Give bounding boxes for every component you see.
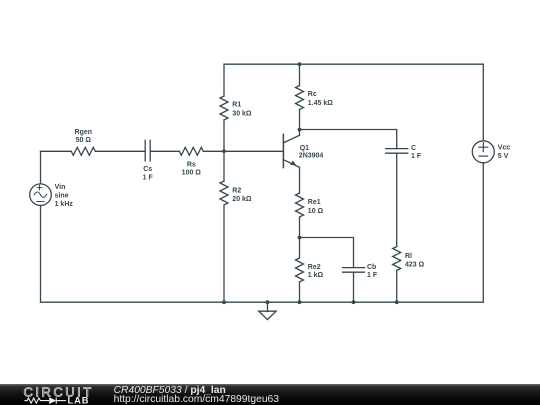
wire node B to R2 <box>223 151 225 181</box>
svg-text:Rs: Rs <box>187 161 196 168</box>
resistor R2 <box>220 181 252 205</box>
svg-text:50 Ω: 50 Ω <box>76 137 92 144</box>
svg-text:1 kΩ: 1 kΩ <box>308 272 324 279</box>
svg-text:Vcc: Vcc <box>498 145 511 152</box>
svg-text:5 V: 5 V <box>498 153 509 160</box>
wire Vcc bottom <box>482 163 484 302</box>
capacitor C <box>386 145 422 160</box>
wire collector to C <box>300 130 397 149</box>
svg-text:30 kΩ: 30 kΩ <box>232 110 252 117</box>
resistor Rc <box>296 86 334 110</box>
wire Re2 to bottom rail <box>299 282 301 302</box>
node top rail / Rc junction <box>298 62 302 66</box>
wire Rc to collector <box>299 110 301 136</box>
transistor Q1 <box>283 134 323 167</box>
svg-text:R2: R2 <box>232 187 241 194</box>
resistor Re1 <box>296 193 324 217</box>
wire Rs to node B <box>203 150 224 152</box>
capacitor Cs <box>143 140 154 181</box>
node bottom rail Cb <box>352 300 356 304</box>
wire Rgen to Cs <box>95 150 145 152</box>
node bottom rail ground <box>266 300 270 304</box>
svg-text:Cb: Cb <box>367 264 376 271</box>
svg-text:1 F: 1 F <box>367 272 378 279</box>
svg-text:1 kHz: 1 kHz <box>55 201 74 208</box>
svg-text:Re1: Re1 <box>308 199 321 206</box>
svg-text:20 kΩ: 20 kΩ <box>232 196 252 203</box>
svg-text:1 F: 1 F <box>411 153 422 160</box>
node bottom rail Rl <box>395 300 399 304</box>
ground <box>259 302 276 319</box>
wire emitter to Re1 <box>299 167 301 193</box>
footer bar <box>0 384 540 405</box>
svg-text:C: C <box>411 145 416 152</box>
footer text <box>114 385 280 405</box>
svg-text:Rl: Rl <box>405 253 412 260</box>
svg-text:Rgen: Rgen <box>75 129 93 136</box>
resistor Re2 <box>296 258 324 282</box>
node B base junction <box>222 149 226 153</box>
wire Vcc top <box>482 64 484 141</box>
CircuitLab logo <box>24 385 94 405</box>
node bottom rail R2 <box>222 300 226 304</box>
wire Rl to bottom rail <box>396 271 398 303</box>
wire top rail to Rc <box>299 64 301 85</box>
wire node B to base <box>224 150 283 152</box>
capacitor Cb <box>343 264 378 279</box>
wire node E to Cb <box>300 238 354 268</box>
svg-text:Q1: Q1 <box>300 145 309 152</box>
svg-text:1 F: 1 F <box>143 174 154 181</box>
resistor Rs <box>179 147 203 176</box>
resistor Rgen <box>71 129 95 156</box>
wire C to Rl <box>396 153 398 246</box>
wire bottom rail <box>41 301 484 303</box>
svg-text:Cs: Cs <box>143 166 152 173</box>
svg-text:Vin: Vin <box>55 184 66 191</box>
resistor Rl <box>393 247 425 271</box>
svg-text:1.45 kΩ: 1.45 kΩ <box>308 100 333 107</box>
wire top rail <box>224 63 483 65</box>
svg-text:LAB: LAB <box>68 395 90 405</box>
wire R2 to bottom rail <box>223 205 225 302</box>
node E emitter junction <box>298 236 302 240</box>
svg-text:Re2: Re2 <box>308 264 321 271</box>
wire node E to Re2 <box>299 238 301 259</box>
wire Cs to Rs <box>150 150 179 152</box>
svg-text:Rc: Rc <box>308 91 317 98</box>
wire Vin bottom <box>40 206 42 303</box>
node collector junction <box>298 128 302 132</box>
svg-text:R1: R1 <box>232 102 241 109</box>
source Vcc <box>472 141 510 163</box>
svg-text:http://circuitlab.com/cm47899t: http://circuitlab.com/cm47899tgeu63 <box>114 394 280 405</box>
wire top rail to R1 <box>223 64 225 96</box>
source Vin <box>30 184 74 208</box>
resistor R1 <box>220 96 252 120</box>
wire Re1 to node E <box>299 217 301 238</box>
wire Vin top <box>40 151 42 184</box>
svg-text:2N3904: 2N3904 <box>299 153 324 160</box>
wire Cb to bottom rail <box>353 272 355 302</box>
node bottom rail Re2 <box>298 300 302 304</box>
svg-text:10 Ω: 10 Ω <box>308 208 324 215</box>
wire input corner to Rgen <box>41 150 72 152</box>
svg-text:sine: sine <box>55 192 69 199</box>
svg-text:100 Ω: 100 Ω <box>182 170 202 177</box>
wire R1 to node B <box>223 120 225 151</box>
svg-text:423 Ω: 423 Ω <box>405 262 425 269</box>
